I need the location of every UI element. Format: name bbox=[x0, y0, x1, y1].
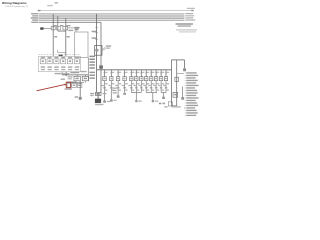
net labels left of bus bbox=[31, 13, 39, 23]
connector list lower right bbox=[185, 90, 199, 116]
label left of connector bbox=[75, 96, 79, 98]
connector at branch C bbox=[183, 68, 186, 71]
label right of junction box bbox=[106, 45, 111, 48]
label under starter bbox=[95, 104, 104, 105]
connector note under bus right bbox=[176, 23, 194, 27]
fuse box small 2 bbox=[72, 83, 77, 87]
pin labels above switch bbox=[54, 25, 71, 26]
ground lead drop 1 bbox=[103, 93, 110, 103]
pin list labels beside main feed bbox=[89, 56, 95, 79]
fuse labels row 3 bbox=[41, 69, 79, 70]
wire: branch C stub bbox=[184, 60, 186, 68]
fuse-to-ground drop 10 bbox=[153, 70, 159, 93]
title: Wiring Diagrams bbox=[2, 1, 27, 5]
connector on feed x101 bbox=[99, 65, 103, 68]
connector at drop 4 end bbox=[123, 93, 126, 95]
wire: stub to relay 2 bbox=[84, 75, 86, 76]
starter motor (dark box) bbox=[95, 99, 101, 103]
ignition switch contact boxes bbox=[51, 27, 68, 30]
component at branch A bottom bbox=[168, 102, 172, 106]
label left of relay 1 bbox=[61, 79, 65, 80]
connector C101 bbox=[40, 27, 43, 29]
wire: ground lead merge 2 bbox=[152, 93, 159, 103]
wire: branch D stub bbox=[182, 87, 184, 98]
connector labels along main feed bbox=[92, 31, 97, 39]
wire: bus line 2 bbox=[39, 15, 185, 17]
fuse-to-ground drop 9 bbox=[148, 70, 154, 93]
wire: ground lead merge 1 bbox=[135, 93, 142, 103]
label BAT bbox=[74, 27, 79, 29]
ground lead drop 2 bbox=[110, 93, 117, 102]
fuse amp labels row bbox=[41, 57, 79, 58]
connector at branch D bbox=[181, 97, 184, 100]
fuse-to-ground drop 3 bbox=[115, 70, 121, 93]
wire: ground distribution bus y70.2 bbox=[97, 69, 172, 71]
wire: bus line 5 (short) bbox=[39, 21, 101, 23]
wire: bus line 3 bbox=[39, 17, 185, 19]
inline connector ticks on main feed bbox=[95, 28, 98, 40]
labels under fuse box bbox=[55, 73, 70, 74]
label IG bbox=[68, 30, 73, 31]
wire: main feed x96.6 bbox=[96, 14, 98, 93]
label under red fuse bbox=[65, 88, 73, 89]
wire: drop at x58 with bend bbox=[58, 16, 66, 31]
label MAIN above fuse box bbox=[59, 55, 63, 57]
wire: feed x101 bbox=[100, 22, 102, 92]
wire: right branch vertical A bbox=[171, 60, 173, 106]
junction dot bbox=[65, 74, 67, 76]
label above top feed line left bbox=[47, 5, 53, 6]
label at top feed line right end bbox=[187, 8, 195, 9]
fuse-to-ground drop 12 bbox=[163, 70, 169, 93]
fuse-to-ground drop 6 bbox=[133, 70, 139, 93]
red highlight box on fuse bbox=[66, 82, 71, 88]
wire: drop at x53 bbox=[52, 14, 54, 57]
relay box label bbox=[75, 29, 79, 32]
subtitle: figure caption bbox=[6, 5, 29, 8]
wire: horizontal distribution y74.9 bbox=[62, 74, 88, 76]
wire: switch to BAT label bbox=[68, 27, 74, 29]
wire: into starter bbox=[97, 96, 99, 99]
wire color labels at right bus ends bbox=[185, 13, 195, 21]
wire: top feed line bbox=[38, 10, 194, 11]
wire: right branch top y59.9 bbox=[171, 59, 184, 61]
wire: link to connector list bbox=[177, 72, 184, 74]
wire from C101 bbox=[44, 28, 52, 30]
relay box outline bbox=[75, 32, 88, 58]
faint connector list top right bbox=[176, 29, 197, 32]
wire: bus line 1 bbox=[39, 13, 185, 15]
fuse (highlighted) black body bbox=[67, 83, 70, 87]
wire: merge bus 3 bbox=[161, 92, 166, 94]
component between branches bbox=[173, 92, 178, 97]
wire: bus line 4 bbox=[39, 19, 185, 21]
wire: merge bus 2 bbox=[146, 92, 157, 94]
pin labels on drop wires bbox=[54, 36, 70, 38]
wire: right branch vertical B bbox=[176, 60, 178, 106]
wire: stub to relay 1 bbox=[76, 75, 78, 76]
annotation: red arrow bbox=[37, 84, 67, 91]
under-hood fuse box outline bbox=[39, 56, 81, 71]
fuse-to-ground drop 7 bbox=[138, 70, 144, 93]
fuse labels row 2 bbox=[41, 66, 80, 67]
page number mark bbox=[55, 2, 59, 4]
fuse-to-ground drop 1 bbox=[102, 70, 108, 93]
wire: drop to connector x80.2 bbox=[79, 81, 81, 97]
wire: link between drops y52.4 bbox=[58, 50, 66, 53]
labels near merge grounds bbox=[159, 103, 165, 105]
wire: bottom distribution y82.6 bbox=[66, 82, 84, 84]
switch box above starter bbox=[95, 92, 101, 95]
note bottom right bbox=[164, 106, 185, 108]
wire: bottom join of branch A/B bbox=[172, 105, 177, 107]
fuse-to-ground drop 11 bbox=[158, 70, 164, 93]
junction box on feeds bbox=[95, 46, 103, 56]
pin labels right of drop 2 bbox=[112, 88, 117, 94]
component on branch B bbox=[175, 77, 179, 81]
wire: drop at x66 bbox=[65, 18, 67, 56]
fuse-to-ground drop 5 bbox=[128, 70, 134, 93]
fuse boxes row 1 bbox=[40, 59, 79, 64]
relay 1 box bbox=[68, 76, 81, 81]
svg-text:(2001 4-Cylinder fig. 1): (2001 4-Cylinder fig. 1) bbox=[6, 5, 29, 8]
fuse-to-ground drop 2 bbox=[108, 70, 114, 93]
connector list upper right bbox=[185, 72, 199, 88]
connector at end of x80.2 bbox=[79, 97, 82, 100]
wire: fuse box outputs down bbox=[62, 72, 66, 75]
relay 2 box bbox=[82, 76, 88, 82]
label left of switch bbox=[90, 93, 94, 96]
wire: merge bus 1 bbox=[131, 92, 141, 94]
label under relay 1 bbox=[67, 81, 77, 82]
label IG1 HOT bbox=[70, 71, 86, 73]
connector at drop 3 end bbox=[117, 93, 120, 98]
fuse-to-ground drop 8 bbox=[143, 70, 149, 93]
fuse box small 3 bbox=[77, 83, 82, 87]
wire: relay box output x88.3 bbox=[87, 58, 89, 81]
wire: ground lead merge 3 bbox=[162, 93, 165, 100]
svg-text:Wiring Diagrams: Wiring Diagrams bbox=[2, 1, 27, 5]
fuse numbers inside row 1 bbox=[42, 60, 78, 62]
connector hatch right of junction box bbox=[102, 47, 106, 50]
dashed boundary above fuse box bbox=[39, 54, 81, 56]
label right of switch bbox=[103, 93, 107, 94]
fuse-to-ground drop 4 bbox=[122, 70, 128, 93]
